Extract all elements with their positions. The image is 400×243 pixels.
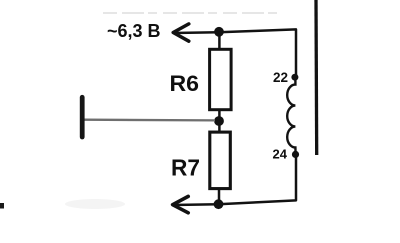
svg-text:~6,3 В: ~6,3 В [107, 21, 161, 41]
wire: lead from R6 to middle node [218, 110, 221, 122]
node: middle junction (R6/R7 tap) [214, 116, 224, 126]
scan artifact: black mark at left edge [0, 203, 4, 209]
svg-text:R7: R7 [171, 154, 200, 180]
arrow to 6.3V supply (top, pointing left) [173, 24, 189, 41]
wire: gray tap lead to electrode [85, 119, 216, 122]
wire: lead from top node to R6 [218, 32, 221, 49]
arrow to return/ground (bottom, pointing left) [173, 196, 189, 212]
scan artifact: faint smudge bottom left [65, 199, 125, 209]
resistor R6 [210, 49, 232, 109]
transformer core (thick vertical bar at right) [314, 0, 318, 155]
terminal 22 [291, 74, 298, 81]
wire: top rail from arrow to right corner, down to terminal 22 [173, 29, 296, 77]
electrode (thick bar at left) [80, 97, 85, 137]
wire: lead from R7 to bottom node [218, 188, 221, 205]
inductor: transformer winding 22-24 [287, 77, 295, 154]
wire: lead from middle node to R7 [218, 121, 221, 132]
scan artifact: faint cropped line at top [103, 12, 278, 14]
svg-text:R6: R6 [170, 71, 200, 96]
resistor R7 [210, 132, 231, 189]
node: top junction [214, 27, 224, 37]
svg-text:24: 24 [273, 146, 288, 161]
svg-text:22: 22 [273, 70, 288, 85]
terminal 24 [292, 151, 299, 158]
wire: bottom rail from arrow to right corner, up to terminal 24 [173, 155, 296, 205]
node: bottom junction [214, 199, 224, 209]
